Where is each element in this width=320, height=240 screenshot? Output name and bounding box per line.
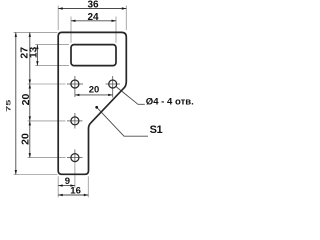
svg-text:Ø4 - 4 отв.: Ø4 - 4 отв. (146, 97, 194, 108)
svg-text:16: 16 (70, 186, 81, 197)
svg-text:13: 13 (28, 46, 39, 58)
svg-text:75: 75 (5, 100, 12, 112)
svg-text:20: 20 (20, 94, 32, 106)
svg-text:24: 24 (87, 12, 99, 23)
svg-text:20: 20 (19, 133, 31, 145)
svg-text:9: 9 (65, 176, 70, 187)
svg-text:20: 20 (89, 85, 100, 96)
svg-text:36: 36 (87, 0, 99, 10)
svg-text:S1: S1 (150, 124, 163, 136)
